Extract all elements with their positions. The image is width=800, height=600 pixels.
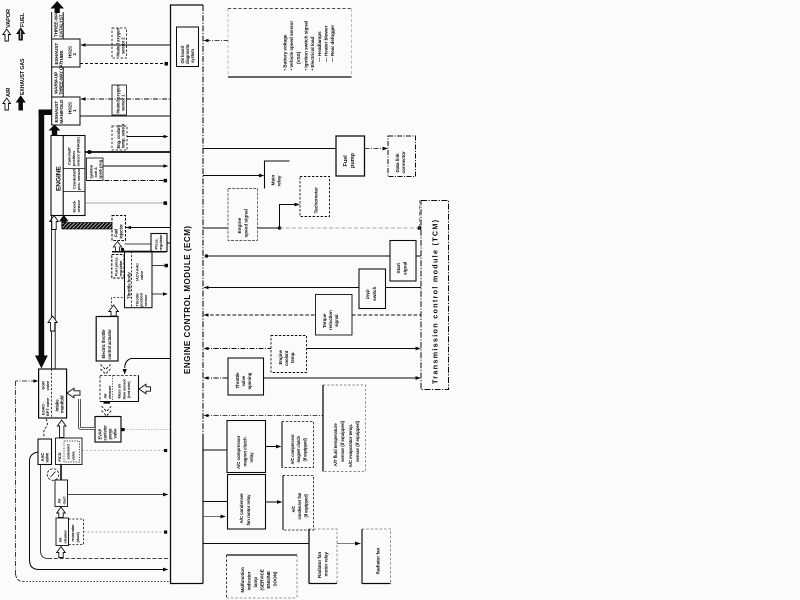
svg-text:regulator: regulator [158, 234, 163, 251]
svg-text:sensor (if equipped): sensor (if equipped) [355, 420, 360, 462]
svg-text:— Heater blower: — Heater blower [324, 25, 330, 62]
svg-text:CATALYST: CATALYST [59, 14, 64, 37]
svg-text:sensor 1: sensor 1 [120, 94, 125, 111]
svg-text:A/C condenser: A/C condenser [239, 493, 244, 524]
TCM box [421, 201, 449, 390]
svg-text:fan motor relay: fan motor relay [246, 494, 251, 526]
svg-text:duct: duct [61, 496, 66, 505]
svg-text:• Vehicle speed sensor: • Vehicle speed sensor [289, 21, 295, 71]
svg-text:cleaner: cleaner [107, 385, 112, 399]
svg-text:signal: signal [402, 262, 408, 275]
svg-text:Radiator fan: Radiator fan [376, 548, 382, 575]
EGR thick pipe from exhaust manifold [39, 110, 52, 116]
fuel pressure regulator lower box [112, 255, 124, 279]
faint wire purge valve to ECM [121, 429, 171, 431]
wire coolant sensor to ECM [127, 136, 164, 138]
label box heated oxygen sensor 1 [112, 85, 127, 115]
wire air duct to ECM [68, 494, 164, 496]
svg-text:MANIFOLD: MANIFOLD [59, 99, 64, 124]
EGR pipe arrowhead down [35, 356, 48, 369]
svg-text:Malfunction: Malfunction [240, 567, 245, 592]
svg-text:FICD: FICD [57, 452, 62, 461]
svg-text:valve: valve [45, 380, 50, 390]
svg-text:(if equipped): (if equipped) [303, 494, 308, 518]
svg-text:cleaner: cleaner [62, 530, 67, 544]
hatched fuel line to injector [62, 223, 112, 230]
link regulator to ECM [167, 242, 171, 244]
throttle body box [125, 251, 153, 308]
electric throttle control actuator box [96, 317, 118, 362]
purge pipe to intake manifold [80, 399, 96, 429]
svg-text:valve: valve [241, 375, 246, 386]
faint wire to ECM [84, 531, 165, 533]
hollow air inlet arrow below air cleaner [57, 547, 66, 558]
hollow arrow up into manifold from FICD [57, 420, 66, 438]
svg-text:TUBE: TUBE [59, 51, 64, 63]
A/T and evaporator sensor note box [323, 385, 366, 472]
wire ECM to radiator fan relay [203, 543, 309, 545]
svg-text:A/C compressor: A/C compressor [236, 435, 241, 469]
svg-text:ENGINE: ENGINE [56, 166, 63, 191]
legend solid arrow (exhaust gas) [17, 96, 25, 110]
tachometer box [300, 177, 330, 217]
motor circle symbol [47, 469, 59, 481]
svg-text:pos. sensor: pos. sensor [76, 168, 81, 190]
inner box at ECM top [177, 27, 199, 67]
fuel injector box [112, 216, 126, 241]
A/C condenser fan motor relay box [228, 475, 266, 530]
dash-dot wire fuel pump to DLC [365, 148, 384, 150]
arrow to A/C compressor clutch [266, 446, 277, 448]
svg-text:(SERVICE: (SERVICE [260, 569, 265, 590]
hollow air arrow on intake pipe [48, 316, 57, 331]
svg-text:system: system [190, 49, 195, 63]
svg-text:sensor (PHASE): sensor (PHASE) [76, 136, 81, 166]
faint wire engine cell3 to ECM [85, 202, 164, 204]
start signal box [390, 241, 416, 282]
svg-text:relay: relay [277, 175, 283, 186]
malfunction indicator lamp box [227, 554, 298, 556]
wire exhaust tube dashed to ECM [80, 63, 166, 65]
wire throttle position to ECM [152, 293, 164, 295]
wire ECM to PNP switch [204, 287, 359, 289]
FICD solenoid box [56, 438, 83, 465]
dash-dot wire ECM to coolant temp [205, 348, 272, 350]
A/C compressor magnet clutch box [282, 422, 314, 468]
dashed wire ECM to torque reduction [205, 314, 316, 316]
wire ECM to injector [126, 227, 171, 229]
arrow to radiator fan [337, 543, 355, 545]
svg-text:PNP: PNP [366, 289, 372, 299]
svg-text:magnet clutch: magnet clutch [296, 435, 301, 462]
wire ECM to MIL [203, 516, 221, 518]
svg-text:speed signal: speed signal [244, 208, 250, 237]
tick below air cleaner [104, 402, 111, 404]
wire ECM to A/C condenser fan relay [203, 501, 228, 503]
label box heated oxygen sensor 2 [112, 28, 127, 58]
EVAP canister purge valve box [95, 417, 121, 443]
fuel rail line [112, 251, 167, 253]
hollow air arrow down into throttle actuator [114, 297, 125, 299]
dashed hose EGR to AAC valve [44, 419, 48, 438]
AAC valve box [38, 439, 52, 465]
arrow to A/C condenser fan motor [266, 501, 278, 503]
svg-text:reduction: reduction [328, 310, 333, 330]
svg-text:• Electrical load: • Electrical load [310, 36, 316, 70]
faint wire FICD to ECM [82, 450, 164, 452]
legend hollow arrow (vapor) [3, 29, 11, 41]
svg-text:ENGINE: ENGINE [266, 571, 271, 588]
svg-text:— Headlamps: — Headlamps [317, 31, 323, 62]
svg-text:Data link: Data link [395, 153, 401, 173]
wire engine speed to tachometer [258, 205, 296, 229]
svg-text:Electric throttle: Electric throttle [101, 329, 106, 359]
svg-text:Engine: Engine [278, 350, 283, 365]
hollow air inlet arrow [139, 384, 151, 394]
pressure regulator box [151, 234, 167, 252]
svg-text:spark plug: spark plug [98, 159, 103, 179]
engine speed signal box [228, 189, 258, 241]
data link connector box [388, 136, 416, 177]
svg-text:Engine: Engine [237, 217, 243, 233]
dashed down arrow into purge valve [102, 406, 112, 412]
svg-text:opening: opening [247, 372, 252, 389]
svg-text:switch: switch [372, 287, 378, 301]
svg-text:A/T fluid temperature: A/T fluid temperature [333, 423, 338, 467]
EGR / intake manifold box [39, 369, 67, 418]
svg-text:sensor 2: sensor 2 [120, 37, 125, 54]
input list wire to ECM [206, 40, 229, 42]
svg-text:lamp: lamp [253, 577, 258, 588]
svg-text:connector: connector [401, 151, 407, 174]
svg-text:AIR: AIR [6, 88, 12, 97]
dash-dot wire engine to ECM [87, 180, 164, 182]
svg-text:temp. sensor: temp. sensor [120, 123, 125, 148]
svg-text:Torque: Torque [322, 313, 327, 328]
hollow fuel arrow up into injector [113, 242, 121, 252]
wire ignition coil to ECM [103, 165, 164, 167]
wire ECM to A/C compressor relay [203, 449, 227, 451]
svg-text:• Ignition switch signal: • Ignition switch signal [303, 21, 309, 70]
thick wire engine cell1 to ECM [85, 151, 171, 153]
arrowhead into exhaust tube [81, 43, 86, 47]
junction dot [165, 62, 169, 66]
svg-text:Throttle body: Throttle body [126, 272, 131, 299]
svg-text:Throttle: Throttle [235, 372, 240, 389]
svg-text:(hot wire): (hot wire) [126, 381, 131, 398]
svg-text:A/C evaporator temp.: A/C evaporator temp. [348, 424, 353, 468]
torque reduction signal box [316, 295, 353, 336]
wire ECM to main relay [203, 175, 261, 177]
wire AAC valve to ECM (left wrap) [30, 452, 39, 461]
legend hollow arrow (air) [3, 98, 11, 110]
dashed chevrons below actuator [101, 365, 111, 370]
svg-text:Fuel: Fuel [343, 155, 349, 167]
svg-text:manifold: manifold [59, 395, 64, 413]
PNP switch box [359, 269, 386, 309]
svg-text:valve: valve [70, 450, 75, 460]
striped fuel arrow into engine [60, 216, 68, 229]
svg-text:SOON): SOON) [273, 571, 278, 586]
svg-text:THREE-WAY CAT.: THREE-WAY CAT. [59, 62, 64, 95]
junction dot on thick wire [88, 150, 92, 154]
svg-text:A/C: A/C [291, 506, 296, 513]
svg-text:Radiator fan: Radiator fan [317, 552, 322, 578]
svg-text:position: position [140, 292, 144, 307]
wire ECM to engine speed signal box [203, 227, 228, 229]
ECM input list box [228, 8, 352, 10]
svg-text:valve: valve [139, 270, 144, 280]
svg-text:EXHAUST GAS: EXHAUST GAS [20, 58, 26, 95]
svg-text:ENGINE CONTROL MODULE (ECM): ENGINE CONTROL MODULE (ECM) [183, 226, 192, 374]
svg-text:BPT valve: BPT valve [45, 397, 50, 416]
wire AAC valve lower to ECM (dashed wrap) [40, 465, 42, 552]
svg-text:relay: relay [249, 452, 254, 463]
svg-text:magnet clutch: magnet clutch [243, 437, 248, 467]
exhaust manifold box (HO2S1) [52, 97, 80, 125]
svg-text:Main: Main [270, 175, 276, 186]
svg-text:regulator: regulator [118, 260, 123, 277]
svg-text:sensor: sensor [76, 199, 81, 212]
svg-text:condenser fan: condenser fan [297, 492, 302, 519]
engine coolant temp box [271, 336, 307, 373]
svg-text:• Battery voltage: • Battery voltage [283, 34, 289, 70]
exhaust pipe upper (three-way catalyst section) [51, 12, 53, 39]
tailpipe exhaust arrow [50, 1, 64, 13]
wire HO2S1 to ECM dash-dot [81, 98, 171, 100]
air duct box [55, 480, 68, 507]
svg-text:(VSS): (VSS) [296, 51, 302, 64]
svg-text:Transmission control module (T: Transmission control module (TCM) [431, 219, 440, 384]
air cleaner / mass air flow sensor box [100, 376, 139, 402]
air cleaner lower box [56, 518, 69, 546]
svg-text:sensor (if equipped): sensor (if equipped) [340, 420, 345, 462]
arrowhead into exhaust manifold [81, 97, 86, 101]
intake pipe below engine [51, 216, 53, 370]
hollow purge arrow into manifold [67, 388, 80, 398]
svg-text:valve: valve [45, 452, 50, 463]
dash-dot wire ECM to A/T sensors [205, 415, 324, 417]
svg-text:(duct): (duct) [75, 531, 80, 542]
svg-text:indicator: indicator [247, 571, 252, 590]
legend fuel arrow [17, 28, 25, 40]
exhaust tube box (HO2S2) [52, 39, 80, 67]
exhaust pipe middle (warm-up catalyst section) [51, 67, 53, 97]
main relay bracket [265, 161, 290, 189]
svg-text:motor relay: motor relay [324, 552, 329, 577]
svg-text:Start: Start [396, 263, 402, 274]
coolant temp sensor box [112, 126, 127, 150]
engine box [51, 136, 85, 216]
svg-text:valve: valve [112, 428, 117, 439]
svg-text:signal: signal [334, 315, 339, 327]
dash-dot wire ECM to throttle opening [205, 377, 229, 379]
svg-text:FUEL: FUEL [20, 12, 26, 27]
svg-text:temp.: temp. [290, 351, 295, 363]
wire throttle sensors to ECM [152, 265, 166, 267]
svg-text:injector: injector [118, 224, 123, 239]
exhaust arrow engine to manifold [49, 125, 61, 136]
fuel pump box [336, 136, 365, 176]
link FICD to air duct [60, 465, 62, 481]
ECM box [171, 5, 204, 584]
throttle valve opening box [228, 358, 264, 395]
svg-text:Tachometer: Tachometer [314, 187, 320, 214]
svg-text:pump: pump [350, 152, 356, 168]
svg-text:(if equipped): (if equipped) [302, 438, 307, 462]
ignition coil box [87, 158, 104, 181]
svg-text:— Rear defogger: — Rear defogger [330, 25, 336, 62]
svg-text:VAPOR: VAPOR [6, 9, 12, 28]
radiator fan box [362, 529, 391, 584]
wire ECM to fuel pump [203, 148, 336, 150]
hollow air arrow into air duct [57, 507, 66, 518]
wire ECM to start signal box [206, 255, 390, 257]
A/C compressor magnet clutch relay box [227, 421, 266, 473]
radiator fan motor relay box [309, 529, 337, 584]
hollow air arrow into engine [50, 216, 59, 230]
svg-text:A/C compressor: A/C compressor [290, 434, 295, 465]
svg-text:coolant: coolant [284, 350, 289, 366]
faint wire to TCM riser [280, 227, 420, 229]
EGR control dash-dot wire [16, 380, 36, 382]
svg-text:control actuator: control actuator [107, 329, 112, 360]
A/C condenser fan motor box [283, 476, 314, 531]
wire HO2S2 to ECM [81, 44, 171, 46]
wire exhaust manifold to ECM [80, 115, 171, 117]
wire ECM to MAF with curve [131, 358, 171, 360]
svg-text:sensor: sensor [144, 294, 148, 306]
